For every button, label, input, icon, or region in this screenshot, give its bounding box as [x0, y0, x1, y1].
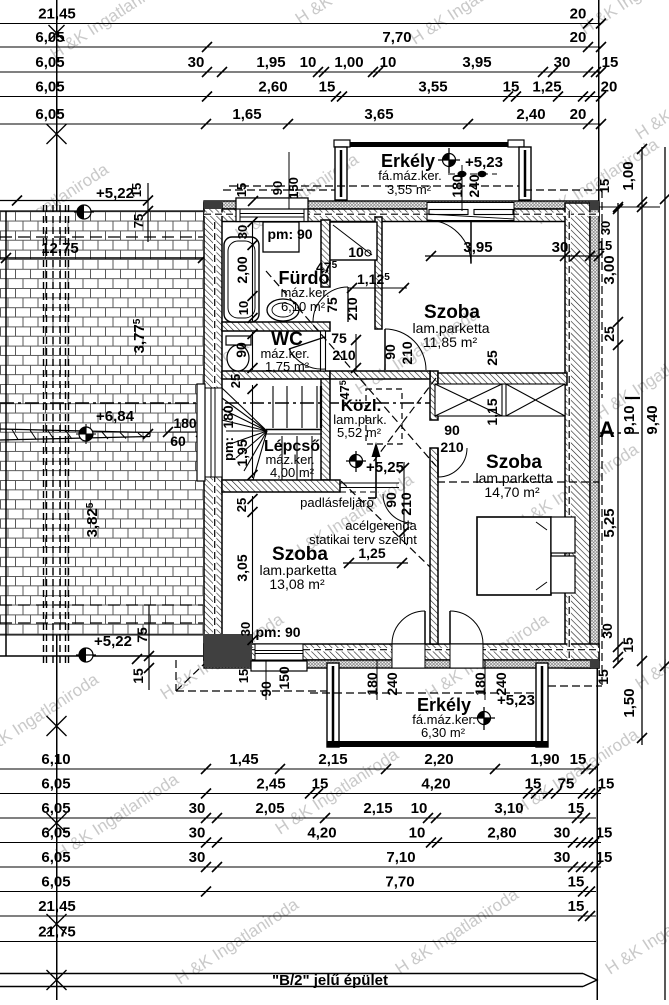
svg-text:3,00: 3,00 — [601, 255, 618, 284]
svg-text:2,20: 2,20 — [424, 751, 453, 768]
door furdo — [313, 287, 348, 322]
svg-text:1,25: 1,25 — [358, 545, 385, 561]
door top szoba from hall — [385, 329, 426, 370]
construction cross lower left — [47, 716, 67, 736]
wardrobe row with X — [435, 384, 565, 416]
svg-text:3,65: 3,65 — [364, 106, 393, 123]
section line A — [0, 398, 640, 442]
svg-text:6,10 m²: 6,10 m² — [281, 299, 326, 314]
svg-text:1,25: 1,25 — [532, 79, 561, 96]
svg-text:+5,25: +5,25 — [366, 459, 404, 476]
svg-text:20: 20 — [601, 79, 618, 96]
svg-text:30: 30 — [188, 54, 205, 71]
svg-text:fá.máz.ker.: fá.máz.ker. — [378, 168, 442, 183]
svg-text:1,65: 1,65 — [232, 106, 261, 123]
construction vertical line left — [56, 0, 58, 1000]
svg-text:15: 15 — [598, 238, 612, 253]
balcony bottom left rail — [327, 663, 339, 747]
top dimension row 1 — [0, 6, 606, 29]
svg-text:10: 10 — [409, 825, 426, 842]
svg-text:15: 15 — [503, 79, 520, 96]
svg-text:2,00: 2,00 — [234, 256, 250, 283]
window stairs left wall — [197, 384, 222, 481]
stairs labels — [220, 374, 320, 480]
room bottom-left szoba labels — [234, 495, 418, 700]
bathtub — [224, 237, 259, 322]
svg-text:10: 10 — [300, 54, 317, 71]
svg-text:75: 75 — [324, 297, 340, 313]
svg-text:30: 30 — [238, 622, 253, 636]
svg-text:máz.ker.: máz.ker. — [280, 285, 329, 300]
svg-text:21,45: 21,45 — [38, 6, 76, 23]
svg-text:+5,22: +5,22 — [94, 633, 132, 650]
svg-text:15: 15 — [129, 183, 144, 197]
svg-text:90: 90 — [383, 492, 399, 508]
svg-text:10: 10 — [236, 301, 251, 315]
svg-text:pm: 90: pm: 90 — [255, 624, 300, 640]
svg-text:6,05: 6,05 — [41, 800, 70, 817]
construction cross marks on left vertical — [47, 25, 67, 242]
stair direction arrow — [368, 442, 381, 498]
bottom cross marks — [47, 813, 67, 934]
roof level label +5,22 bottom — [76, 605, 154, 690]
svg-text:15: 15 — [596, 825, 613, 842]
svg-text:4,00 m²: 4,00 m² — [270, 465, 315, 480]
svg-text:10: 10 — [380, 54, 397, 71]
door bottom-left szoba to balcony — [392, 611, 425, 668]
washbasin — [267, 299, 299, 321]
interior wall vertical east of furdo — [321, 220, 331, 480]
svg-text:4,20: 4,20 — [421, 776, 450, 793]
right dim chain 2 — [620, 144, 647, 745]
bottom dimension row 3 — [0, 800, 596, 823]
bottom dimension row 7 — [0, 898, 596, 921]
right top corner small dims — [597, 179, 660, 235]
balcony right rail — [519, 147, 531, 200]
svg-text:15: 15 — [596, 849, 613, 866]
door bottom right szoba from hall — [438, 448, 467, 477]
bottom dimension row 8 — [0, 924, 596, 942]
svg-text:11,85 m²: 11,85 m² — [423, 334, 478, 350]
svg-text:10: 10 — [348, 244, 364, 260]
balcony top labels — [378, 148, 503, 211]
balcony bottom rail — [327, 741, 548, 747]
outer wall left — [204, 203, 222, 660]
svg-text:15: 15 — [525, 776, 542, 793]
interior wall hall/bottom szoba — [222, 480, 399, 492]
svg-text:180: 180 — [220, 405, 236, 429]
svg-text:15: 15 — [602, 54, 619, 71]
svg-text:3,55 m²: 3,55 m² — [387, 182, 432, 197]
wall insulation dashed lines — [204, 211, 599, 660]
roof rotated dims — [84, 318, 148, 537]
balcony bottom labels — [364, 660, 535, 740]
svg-text:6,10: 6,10 — [41, 751, 70, 768]
top dimension row 2 — [0, 29, 606, 52]
svg-text:15: 15 — [597, 179, 612, 193]
svg-text:180: 180 — [472, 672, 488, 696]
svg-text:210: 210 — [440, 439, 464, 455]
roof valley band +6,84 — [0, 408, 206, 449]
svg-text:1,75 m²: 1,75 m² — [265, 359, 310, 374]
svg-text:21,45: 21,45 — [38, 898, 76, 915]
svg-text:15: 15 — [568, 874, 585, 891]
svg-text:180: 180 — [173, 415, 197, 431]
interior wall furdo/wc — [222, 322, 330, 331]
svg-text:15: 15 — [570, 751, 587, 768]
wall corner dark bottom-left — [204, 634, 252, 667]
svg-text:1,95: 1,95 — [234, 439, 250, 466]
svg-text:180: 180 — [364, 672, 380, 696]
svg-text:3,05: 3,05 — [234, 554, 250, 581]
svg-text:6,05: 6,05 — [41, 874, 70, 891]
svg-text:15: 15 — [312, 776, 329, 793]
svg-text:20: 20 — [570, 29, 587, 46]
svg-text:+6,84: +6,84 — [96, 408, 135, 425]
washing machine — [263, 222, 313, 252]
svg-text:25: 25 — [601, 326, 617, 342]
svg-text:20: 20 — [570, 6, 587, 23]
roof dashed verticals — [44, 205, 69, 664]
construction vertical line right top — [598, 0, 600, 203]
svg-text:7,70: 7,70 — [385, 874, 414, 891]
svg-text:210: 210 — [399, 341, 415, 365]
interior wall top szoba bottom — [330, 371, 567, 385]
svg-text:30: 30 — [189, 825, 206, 842]
svg-text:1,00: 1,00 — [620, 161, 637, 190]
svg-text:2,15: 2,15 — [318, 751, 347, 768]
interior wall west of top szoba — [375, 217, 382, 329]
overhang dashed outline — [176, 190, 602, 691]
svg-text:3,95: 3,95 — [463, 239, 492, 256]
svg-text:240: 240 — [493, 672, 509, 696]
outer wall top — [204, 201, 599, 222]
svg-text:10: 10 — [411, 800, 428, 817]
building extent band B/2 — [0, 970, 597, 990]
door bottom-left szoba from hall — [383, 462, 414, 537]
balcony top rail — [334, 140, 524, 147]
svg-text:15: 15 — [319, 79, 336, 96]
svg-text:25: 25 — [484, 350, 500, 366]
top dimension row 3 — [0, 54, 618, 77]
window furdo top — [234, 152, 308, 222]
room top szoba labels — [347, 238, 612, 366]
top dimension row 5 — [0, 106, 606, 129]
svg-text:21,75: 21,75 — [38, 924, 76, 941]
interior dim line stairs — [248, 384, 258, 480]
outer wall right — [565, 203, 599, 668]
top dimension row 4 — [0, 79, 617, 102]
svg-text:15: 15 — [598, 776, 615, 793]
svg-text:6,05: 6,05 — [35, 106, 64, 123]
svg-text:15: 15 — [568, 898, 585, 915]
svg-text:20: 20 — [570, 106, 587, 123]
balcony bottom dashed line — [310, 692, 536, 694]
interior dim line bottom-left szoba — [248, 494, 258, 645]
svg-text:2,15: 2,15 — [363, 800, 392, 817]
roof brick area — [0, 211, 203, 656]
svg-text:3,55: 3,55 — [418, 79, 447, 96]
svg-text:6,30 m²: 6,30 m² — [421, 725, 466, 740]
svg-text:90: 90 — [382, 344, 398, 360]
right dim chain 3 — [644, 147, 669, 1000]
svg-text:4,20: 4,20 — [307, 825, 336, 842]
svg-text:150: 150 — [286, 177, 301, 199]
svg-text:pm: 90: pm: 90 — [267, 226, 312, 242]
svg-text:5,52 m²: 5,52 m² — [337, 425, 382, 440]
bottom dimension row 6 — [0, 874, 596, 897]
svg-text:1,95: 1,95 — [256, 54, 285, 71]
svg-text:210: 210 — [344, 297, 360, 321]
wall corner darks — [204, 201, 599, 668]
svg-text:9,10: 9,10 — [621, 405, 638, 434]
svg-text:90: 90 — [233, 342, 249, 358]
room kozl labels — [333, 389, 464, 476]
bottom dimension row 4 — [0, 825, 612, 848]
svg-text:6,05: 6,05 — [35, 79, 64, 96]
roof ridge dimension line 12,75 — [0, 240, 208, 263]
svg-text:7,10: 7,10 — [386, 849, 415, 866]
bottom dimension row 2 — [0, 776, 614, 799]
svg-text:30: 30 — [554, 825, 571, 842]
svg-text:75: 75 — [134, 627, 150, 643]
interior wall vertical center — [430, 371, 438, 644]
roof level label +5,22 top — [0, 183, 153, 242]
room bottom-right szoba labels — [475, 398, 552, 500]
svg-text:acélgerenda: acélgerenda — [345, 518, 417, 533]
svg-text:75: 75 — [558, 776, 575, 793]
balcony bottom right rail — [536, 663, 548, 747]
svg-text:15: 15 — [595, 669, 611, 685]
svg-text:240: 240 — [384, 672, 400, 696]
svg-text:7,70: 7,70 — [382, 29, 411, 46]
svg-text:1,15: 1,15 — [484, 398, 500, 425]
svg-text:90: 90 — [270, 181, 285, 195]
svg-text:30: 30 — [552, 239, 569, 256]
svg-text:2,60: 2,60 — [258, 79, 287, 96]
svg-text:210: 210 — [398, 492, 414, 516]
svg-text:60: 60 — [170, 433, 186, 449]
svg-text:1,00: 1,00 — [334, 54, 363, 71]
outer wall bottom — [204, 644, 599, 668]
svg-text:2,80: 2,80 — [487, 825, 516, 842]
balcony dashed sill line — [229, 185, 519, 187]
svg-text:statikai terv szerint: statikai terv szerint — [309, 532, 417, 547]
svg-text:30: 30 — [189, 800, 206, 817]
svg-text:30: 30 — [554, 849, 571, 866]
construction vertical line right bottom — [596, 660, 598, 1000]
svg-text:6,05: 6,05 — [41, 776, 70, 793]
bed — [477, 517, 575, 595]
room furdo labels — [234, 217, 360, 323]
svg-text:15: 15 — [568, 800, 585, 817]
balcony left rail — [335, 147, 347, 200]
svg-text:15: 15 — [620, 637, 636, 653]
svg-text:+5,23: +5,23 — [465, 154, 503, 171]
svg-text:14,70 m²: 14,70 m² — [484, 484, 540, 500]
svg-text:150: 150 — [276, 666, 292, 690]
svg-text:1,90: 1,90 — [530, 751, 559, 768]
right dim chain 1 — [595, 203, 623, 685]
svg-text:3,10: 3,10 — [494, 800, 523, 817]
svg-text:2,05: 2,05 — [255, 800, 284, 817]
dashed line through bottom-right szoba — [437, 481, 599, 483]
svg-text:2,45: 2,45 — [256, 776, 285, 793]
stairs — [222, 386, 322, 480]
svg-text:25: 25 — [234, 498, 249, 512]
svg-text:9,40: 9,40 — [644, 405, 661, 434]
window bottom szoba — [251, 644, 307, 671]
svg-text:1,45: 1,45 — [229, 751, 258, 768]
wc toilet — [226, 336, 251, 371]
svg-text:3,95: 3,95 — [462, 54, 491, 71]
svg-text:15: 15 — [236, 669, 251, 683]
svg-text:1,50: 1,50 — [621, 688, 638, 717]
door top szoba to balcony (double leaf) — [427, 203, 514, 265]
svg-text:30: 30 — [599, 623, 615, 639]
svg-text:25: 25 — [228, 374, 243, 388]
svg-text:5,25: 5,25 — [601, 508, 618, 537]
interior wall wc/stairs — [222, 371, 330, 379]
svg-text:2,40: 2,40 — [516, 106, 545, 123]
svg-text:30: 30 — [554, 54, 571, 71]
shower — [330, 222, 377, 260]
svg-text:6,05: 6,05 — [35, 54, 64, 71]
svg-text:30: 30 — [189, 849, 206, 866]
roof dashed projection lines — [0, 237, 203, 623]
svg-text:75: 75 — [331, 330, 347, 346]
door bottom-right szoba to balcony — [450, 611, 483, 668]
room wc labels — [233, 329, 361, 400]
bottom dimension row 1 — [0, 751, 599, 774]
svg-text:6,05: 6,05 — [41, 849, 70, 866]
svg-text:15: 15 — [130, 668, 146, 684]
svg-text:13,08 m²: 13,08 m² — [269, 576, 325, 592]
svg-text:30: 30 — [598, 221, 613, 235]
bottom dimension row 5 — [0, 849, 612, 872]
svg-text:90: 90 — [444, 422, 460, 438]
svg-text:210: 210 — [332, 347, 356, 363]
svg-text:"B/2" jelű épület: "B/2" jelű épület — [272, 972, 388, 989]
door wc — [289, 337, 325, 369]
